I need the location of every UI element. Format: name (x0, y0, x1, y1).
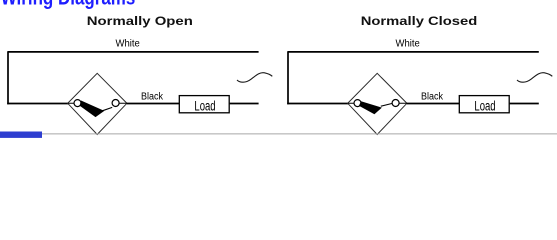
svg-text:Load: Load (474, 98, 495, 113)
wire stub right contact to diamond right vertex (right) (399, 102, 407, 104)
wire load to end (right diagram) (510, 103, 539, 105)
wire left vertical (left diagram) (7, 51, 9, 104)
contact circle left (right diagram) (354, 100, 361, 107)
float switch diamond (right) (348, 73, 407, 134)
wire stub diamond left vertex to contact (left) (68, 102, 74, 104)
switch arm wedge (normally closed, nearly level) (359, 101, 382, 114)
float switch diamond (left) (68, 73, 127, 134)
load box (right) (459, 96, 509, 113)
wire top (right diagram) (288, 51, 539, 53)
wire stub right contact to diamond right vertex (left) (119, 102, 127, 104)
wire diamond to load (right diagram) (407, 103, 459, 105)
svg-text:White: White (396, 38, 421, 49)
contact circle right (right diagram) (392, 100, 399, 107)
switch arm tip line (open, stops short of right contact) (102, 107, 112, 110)
svg-text:Black: Black (141, 92, 164, 103)
footer divider line (0, 133, 557, 135)
wire top (left diagram) (8, 51, 259, 53)
wire stub diamond left vertex to contact (right) (348, 102, 354, 104)
footer blue bar (0, 132, 42, 138)
svg-text:Normally Closed: Normally Closed (361, 14, 478, 28)
wire bottom left segment (left diagram) (7, 103, 68, 105)
AC source squiggle (left) (237, 73, 272, 83)
switch arm tip line (closed, touches right contact) (381, 103, 393, 106)
wire diamond to load (left diagram) (127, 103, 179, 105)
svg-text:Wiring Diagrams: Wiring Diagrams (1, 0, 136, 10)
svg-text:Load: Load (194, 98, 215, 113)
contact circle right (left diagram) (112, 100, 119, 107)
switch arm wedge (normally open, tilted down) (80, 101, 105, 118)
svg-text:Black: Black (421, 92, 444, 103)
load box (left) (179, 96, 229, 113)
svg-text:White: White (116, 38, 141, 49)
contact circle left (left diagram) (74, 100, 81, 107)
wire left vertical (right diagram) (287, 51, 289, 104)
svg-text:Normally Open: Normally Open (87, 14, 193, 28)
wire bottom left segment (right diagram) (287, 103, 348, 105)
wire load to end (left diagram) (230, 103, 259, 105)
AC source squiggle (right) (517, 73, 552, 83)
